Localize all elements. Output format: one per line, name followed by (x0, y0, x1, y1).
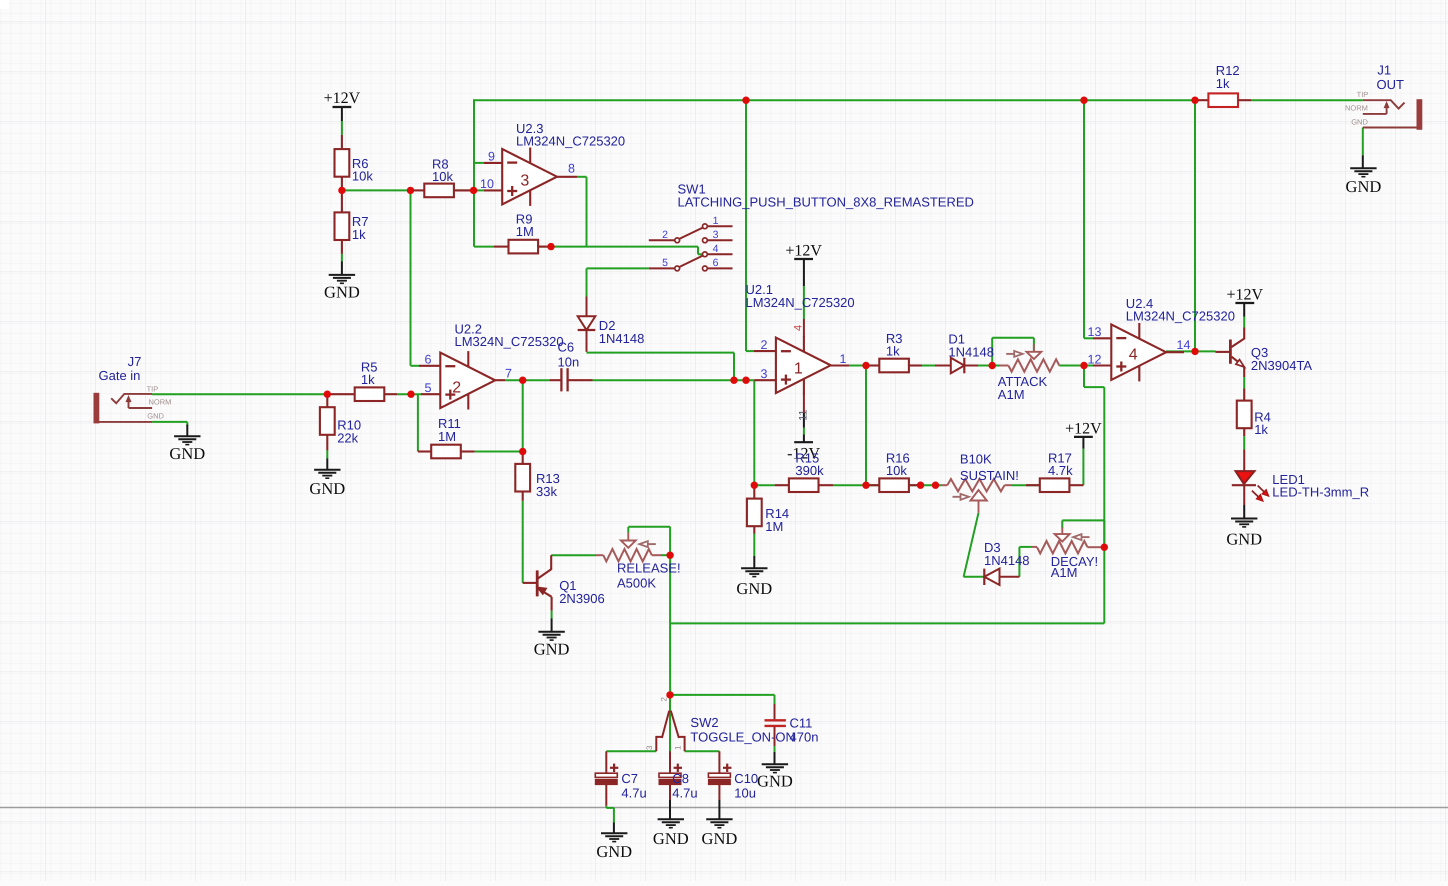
resistor R5 right pin (384, 393, 397, 395)
svg-text:5: 5 (425, 381, 432, 395)
ground (Q1 emitter) (534, 632, 570, 659)
ground (J1 sleeve) (1346, 168, 1382, 196)
junction node 11 (519, 448, 526, 455)
wire U2.1 pin4 red stub (803, 319, 805, 338)
junction node 1 (338, 187, 345, 194)
label R13 value (536, 471, 560, 499)
label SW2 (690, 715, 795, 744)
svg-text:+12V: +12V (785, 242, 822, 259)
wire R14 gnd black stub (753, 556, 755, 568)
junction node 21 (1191, 348, 1198, 355)
svg-text:4: 4 (1129, 347, 1138, 364)
svg-text:22k: 22k (337, 430, 358, 445)
wire Q1 emitter to GND (551, 611, 553, 619)
wire top +12V rail net (474, 99, 1195, 101)
svg-text:GND: GND (324, 283, 360, 302)
label R9 value (516, 212, 534, 240)
svg-text:A500K: A500K (617, 576, 656, 591)
svg-text:4.7k: 4.7k (1048, 463, 1073, 478)
svg-text:1k: 1k (352, 227, 366, 242)
label ATTACK (998, 374, 1048, 402)
wire pin3 node down to R14/R15 (753, 380, 755, 485)
junction node 3 (470, 187, 477, 194)
LED1 top pin (1243, 450, 1245, 471)
junction node 5 (742, 97, 749, 104)
resistor R14 bottom pin (753, 526, 755, 533)
svg-text:10k: 10k (432, 169, 453, 184)
junction node 8 (324, 391, 331, 398)
resistor R17 (1040, 478, 1070, 492)
wire R9 left leg (474, 246, 494, 248)
svg-text:1N4148: 1N4148 (984, 553, 1030, 568)
resistor R16 right pin (909, 484, 921, 486)
wire J1 sleeve down (1362, 128, 1364, 156)
resistor R3 (879, 359, 909, 373)
power flag +12V (Q3) (1227, 287, 1264, 304)
wire U2.1 -12V (803, 428, 805, 435)
wire J1 gnd black stub (1362, 155, 1364, 168)
potentiometer SUSTAIN B10K (947, 479, 1004, 513)
ground (R10) (309, 470, 345, 498)
svg-text:2: 2 (761, 338, 768, 352)
op-amp U2.2 output stub (495, 379, 505, 381)
resistor R12 left pin (1195, 99, 1208, 101)
capacitor C10 (708, 764, 731, 785)
ground (R14) (736, 568, 772, 598)
svg-text:10k: 10k (352, 169, 373, 184)
svg-text:13: 13 (1088, 325, 1102, 339)
op-amp U2.4 output stub (1166, 351, 1184, 353)
svg-text:10u: 10u (734, 786, 756, 801)
svg-text:1: 1 (713, 215, 719, 227)
capacitor C10 top pin (718, 751, 720, 773)
resistor R13 top pin (522, 452, 524, 464)
resistor R4 bottom pin (1243, 428, 1245, 436)
svg-text:LATCHING_PUSH_BUTTON_8X8_REMAS: LATCHING_PUSH_BUTTON_8X8_REMASTERED (678, 194, 974, 209)
junction node 9 (407, 391, 414, 398)
svg-text:C7: C7 (621, 771, 638, 786)
wire C6 output to U2.1 pin3 (593, 379, 755, 381)
svg-text:14: 14 (1177, 338, 1191, 352)
wire output rail down from R12 node (1194, 100, 1196, 351)
label RELEASE (617, 561, 681, 591)
op-amp U2.3 pin10 stub (484, 189, 502, 191)
wire SW2 pin3 to C7 (606, 750, 656, 752)
capacitor C6 plates (560, 368, 562, 391)
svg-text:1k: 1k (886, 344, 900, 359)
potentiometer DECAY right pin (1088, 546, 1103, 548)
wire U2.2 out node (505, 380, 523, 451)
wire J7 gnd black stub (186, 425, 188, 437)
wire Q3 +12V black stub (1243, 303, 1245, 317)
svg-text:GND: GND (757, 772, 793, 791)
svg-text:3: 3 (645, 745, 654, 750)
svg-text:GND: GND (653, 829, 689, 848)
svg-text:9: 9 (488, 150, 495, 164)
label R11 value (438, 416, 461, 444)
svg-text:3: 3 (713, 229, 719, 241)
label U2.3 (516, 121, 625, 149)
wire C7 to GND jog (606, 806, 614, 823)
svg-text:1k: 1k (1216, 76, 1230, 91)
resistor R9 (509, 240, 539, 254)
potentiometer RELEASE A500K (603, 533, 656, 562)
wire R8 node down to U2.2 pin6 (411, 190, 420, 365)
wire C7 gnd black stub (613, 823, 615, 834)
potentiometer RELEASE left pin (596, 554, 604, 556)
svg-text:LM324N_C725320: LM324N_C725320 (746, 295, 855, 310)
svg-text:C8: C8 (672, 771, 689, 786)
wire C8 bottom pin (669, 785, 671, 800)
svg-text:4.7u: 4.7u (672, 786, 697, 801)
label DECAY (1051, 554, 1098, 580)
label R7 value (352, 214, 369, 242)
wire R16 node wires (866, 484, 941, 486)
transistor Q1 2N3906 (523, 555, 552, 611)
label R12 value (1216, 63, 1240, 91)
wire C10 gnd black stub (718, 800, 720, 819)
wire U2.1 pin11 red stub (803, 393, 805, 413)
label U2.1 (746, 282, 855, 310)
junction node 22 (1101, 544, 1108, 551)
capacitor C8 top pin (669, 751, 671, 773)
wire SUSTAIN right to R17 (1012, 484, 1040, 486)
svg-text:+12V: +12V (1065, 420, 1102, 437)
svg-text:4: 4 (793, 325, 805, 331)
op-amp U2.1 pin2 stub (754, 350, 776, 352)
wire RELEASE right node (662, 554, 671, 556)
wire D1 cathode to ATTACK (964, 365, 1000, 367)
svg-text:1N4148: 1N4148 (948, 344, 994, 359)
svg-text:4.7u: 4.7u (621, 786, 646, 801)
svg-text:2N3904TA: 2N3904TA (1251, 358, 1313, 373)
wire ATTACK right to pin12 node (1059, 365, 1084, 367)
resistor R11 left pin (418, 450, 431, 452)
svg-text:1M: 1M (438, 429, 456, 444)
capacitor C11 top pin (774, 704, 776, 719)
diode D1 (951, 358, 965, 374)
resistor R17 right pin (1069, 484, 1083, 486)
svg-text:GND: GND (169, 444, 205, 463)
switch SW1 latching push button (649, 224, 733, 271)
wire C11 to GND (774, 746, 776, 752)
label R3 value (886, 331, 903, 359)
svg-text:2N3906: 2N3906 (559, 591, 605, 606)
wire U2.4 pin12 stub (1084, 365, 1093, 367)
LED LED1 (1232, 471, 1269, 501)
potentiometer SUSTAIN left pin (941, 484, 947, 486)
wire R17 right up to +12V (1082, 449, 1084, 486)
resistor R16 (879, 478, 909, 492)
label Q1 value (559, 578, 605, 606)
op-amp U2.2 pin6 stub (419, 365, 440, 367)
potentiometer ATTACK left pin (1000, 365, 1008, 367)
svg-text:1M: 1M (765, 519, 783, 534)
ground (LED1) (1226, 519, 1262, 549)
resistor R7 bottom pin (341, 240, 343, 254)
svg-text:1: 1 (794, 361, 803, 378)
junction node 10 (519, 377, 526, 384)
junction node 13 (742, 377, 749, 384)
resistor R8 right pin (454, 189, 474, 191)
wire R11 right to fb node (475, 451, 523, 453)
resistor R6 bottom pin (341, 177, 343, 191)
resistor R15 (789, 478, 819, 492)
resistor R13 bottom pin (522, 492, 524, 501)
resistor R3 right pin (909, 364, 922, 366)
label R4 value (1254, 409, 1271, 437)
wire R5 right to U2.2 pin5 (397, 393, 421, 395)
potentiometer DECAY left pin (1031, 546, 1037, 548)
wire +12V stub (R6) (341, 107, 343, 121)
wire pin12 jog down to DECAY node (1084, 366, 1104, 548)
label SUSTAIN (960, 452, 1019, 484)
svg-text:Gate in: Gate in (99, 368, 141, 383)
wire D3 to DECAY left (1019, 547, 1031, 577)
wire R7 gnd black stub (341, 261, 343, 275)
label R6 value (352, 156, 373, 184)
wire R15 right to U2.1 out node (833, 484, 866, 486)
svg-text:1k: 1k (1254, 422, 1268, 437)
resistor R4 top pin (1243, 389, 1245, 401)
resistor R13 (515, 464, 530, 492)
label D3 value (984, 540, 1030, 568)
resistor R14 top pin (753, 485, 755, 498)
junction node 19 (989, 362, 996, 369)
wire DECAY node down to release row (1103, 547, 1105, 623)
wire R6 node to R8 (342, 189, 411, 191)
resistor R8 left pin (411, 189, 425, 191)
wire R17 +12V black stub (1082, 437, 1084, 449)
diode D2 anode pin (586, 297, 588, 317)
svg-text:1M: 1M (516, 224, 534, 239)
label U2.2 (455, 322, 564, 350)
label Q3 value (1251, 345, 1313, 373)
svg-text:5: 5 (662, 257, 668, 269)
wire R17 +12V black (0, 0, 1, 1)
resistor R5 left pin (327, 393, 354, 395)
diode D2 (578, 316, 596, 330)
resistor R14 (747, 499, 762, 527)
resistor R16 left pin (866, 484, 879, 486)
svg-text:7: 7 (505, 366, 512, 380)
wire SUSTAIN wiper diagonal (964, 513, 985, 577)
resistor R12 (1208, 93, 1238, 107)
wire J7 TIP to R5 (152, 393, 327, 395)
junction node 12 (730, 377, 737, 384)
junction node 7 (1191, 97, 1198, 104)
svg-text:B10K: B10K (960, 452, 992, 467)
capacitor C8 (659, 764, 682, 785)
wire R12 output to J1 TIP (1251, 99, 1363, 101)
svg-text:33k: 33k (536, 484, 557, 499)
power flag +12V (R6) (324, 90, 361, 107)
wire C10 bottom pin (718, 785, 720, 800)
connector J7 audio jack (94, 393, 153, 424)
svg-text:NORM: NORM (1345, 104, 1368, 113)
svg-text:RELEASE!: RELEASE! (617, 561, 681, 576)
wire release row horizontal (670, 622, 1104, 624)
svg-text:GND: GND (147, 411, 164, 420)
wire R10 to GND (326, 450, 328, 459)
op-amp U2.1 pin3 stub (754, 379, 776, 381)
svg-text:6: 6 (713, 257, 719, 269)
op-amp U2.1 output stub (831, 364, 849, 366)
svg-text:SW2: SW2 (690, 715, 718, 730)
label U2.4 (1126, 296, 1235, 324)
svg-text:TOGGLE_ON-ON: TOGGLE_ON-ON (690, 730, 795, 745)
ground (C10) (702, 819, 738, 848)
diode D3 anode pin (1000, 576, 1020, 578)
wire U2.1 output (831, 365, 866, 367)
op-amp U2.1 (776, 336, 831, 394)
svg-text:4: 4 (713, 243, 719, 255)
resistor R10 (320, 407, 335, 435)
wire J7 sleeve to GND (152, 422, 187, 426)
svg-text:J7: J7 (128, 354, 142, 369)
capacitor C11 bottom pin (774, 727, 776, 746)
op-amp U2.3 (502, 148, 557, 206)
wire Q1 gnd black stub (551, 619, 553, 632)
svg-text:3: 3 (761, 367, 768, 381)
svg-text:OUT: OUT (1377, 77, 1405, 92)
svg-text:1N4148: 1N4148 (599, 331, 645, 346)
wire C8 gnd black stub (669, 800, 671, 819)
label R17 value (1048, 450, 1073, 478)
potentiometer DECAY A1M (1037, 528, 1090, 554)
wire U2.3 pin9 from rail (474, 99, 484, 246)
wire U2.1 out node down to R16 (865, 366, 867, 486)
wire R15 left leg (754, 484, 774, 486)
resistor R3 left pin (866, 364, 879, 366)
resistor R6 top pin (341, 135, 343, 149)
wire Q3 emitter to R4 (1243, 377, 1245, 389)
op-amp U2.2 pin5 stub (421, 393, 440, 395)
wire rail down to U2.1 pin2 (746, 100, 754, 351)
wire R4 to LED1 (1243, 436, 1245, 449)
svg-text:LM324N_C725320: LM324N_C725320 (1126, 308, 1235, 323)
wire junction C6 out (523, 379, 550, 381)
wire U2.4 out to Q3 base (1195, 350, 1216, 352)
ground (C8) (653, 819, 689, 848)
wire SW1 pin5 to D2 (587, 268, 649, 296)
resistor R17 left pin (1026, 484, 1040, 486)
op-amp U2.4 pin13 stub (1093, 337, 1111, 339)
svg-text:GND: GND (596, 842, 632, 861)
ground (C7) (596, 833, 632, 861)
label LED1 value (1272, 472, 1369, 500)
op-amp U2.3 output stub (557, 176, 577, 178)
resistor R10 top pin (326, 394, 328, 407)
wire SW2 pin1 to C10 (685, 750, 720, 752)
wire U2.3 output down (577, 177, 587, 247)
label SW1 (678, 182, 974, 210)
resistor R7 (335, 212, 350, 240)
op-amp U2.4 (1111, 323, 1166, 381)
label C6 value (558, 340, 580, 370)
label D1 value (948, 332, 994, 360)
capacitor C6 right pin (568, 379, 593, 381)
wire LED1 gnd black stub (1243, 505, 1245, 519)
junction node 16 (862, 482, 869, 489)
label R14 value (765, 506, 789, 534)
svg-text:A1M: A1M (1051, 565, 1078, 580)
resistor R5 (355, 387, 385, 401)
svg-text:GND: GND (1346, 177, 1382, 196)
label R15 value (795, 450, 824, 478)
label D2 value (599, 318, 645, 346)
svg-text:GND: GND (736, 579, 772, 598)
resistor R4 (1237, 401, 1252, 429)
wire rail down to U2.4 pin13 (1084, 100, 1093, 338)
junction node 20 (1080, 362, 1087, 369)
wire +12V to R6 (341, 121, 343, 135)
label C11 value (790, 716, 819, 745)
resistor R12 right pin (1238, 99, 1251, 101)
wire U2.1 +12V (803, 286, 805, 319)
power flag +12V (U2.1) (785, 242, 822, 259)
resistor R15 right pin (819, 484, 834, 486)
svg-text:NORM: NORM (149, 398, 172, 407)
svg-text:TIP: TIP (1357, 90, 1369, 99)
ground (R7) (324, 275, 360, 302)
resistor R9 right pin (538, 246, 551, 248)
resistor R11 right pin (461, 450, 475, 452)
wire RELEASE node down to SW2 (669, 555, 671, 695)
wire SW2 node down to C8 (669, 696, 671, 773)
wire R10 gnd black stub (326, 459, 328, 470)
wire U2.1 +12V black stub (803, 259, 805, 286)
diode D2 cathode pin (586, 330, 588, 352)
wire R7 to GND (341, 254, 343, 262)
wire ATTACK wiper loop (992, 338, 1034, 366)
potentiometer RELEASE right pin (652, 554, 662, 556)
svg-text:470n: 470n (790, 730, 819, 745)
wire Q1 collector to RELEASE (551, 554, 595, 556)
svg-text:TIP: TIP (147, 384, 159, 393)
capacitor C7 (595, 764, 618, 785)
wire pin5 node down to R11 (417, 394, 419, 451)
wire SW2 node to C11 (670, 695, 774, 704)
label C8 value (672, 771, 697, 801)
svg-text:8: 8 (568, 161, 575, 175)
diode D1 anode pin (935, 365, 951, 367)
resistor R7 top pin (341, 190, 343, 212)
wire RELEASE wiper loop (628, 527, 670, 556)
svg-text:1: 1 (840, 352, 847, 366)
svg-text:10k: 10k (886, 463, 907, 478)
wire R9 right to node (539, 246, 551, 248)
svg-text:SUSTAIN!: SUSTAIN! (960, 468, 1019, 483)
junction node 14 (751, 482, 758, 489)
svg-text:LM324N_C725320: LM324N_C725320 (516, 133, 625, 148)
resistor R9 left pin (494, 246, 509, 248)
svg-text:GND: GND (534, 640, 570, 659)
junction node 4 (547, 243, 554, 250)
wire D2 cathode to pin3 node (587, 353, 735, 381)
junction node 17 (917, 482, 924, 489)
op-amp U2.2 (440, 351, 495, 409)
svg-text:+12V: +12V (1227, 287, 1264, 304)
capacitor C6 left pin (550, 379, 562, 381)
wire R14 bottom green (753, 533, 755, 556)
potentiometer SUSTAIN right pin (1005, 484, 1013, 486)
wire R3 to D1 (909, 365, 951, 367)
connector J1 audio jack (1363, 99, 1423, 130)
wire U2.4 output node (1166, 350, 1195, 352)
resistor R8 (424, 184, 454, 198)
svg-text:GND: GND (1226, 529, 1262, 548)
